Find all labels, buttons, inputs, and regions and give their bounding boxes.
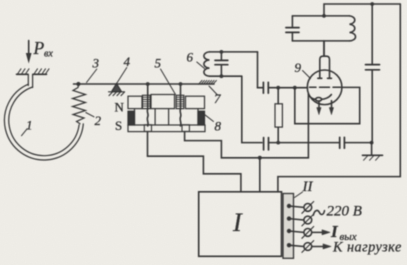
svg-text:II: II xyxy=(302,179,314,195)
svg-text:К нагрузке: К нагрузке xyxy=(332,240,402,256)
plunger left (element 5) xyxy=(146,84,149,126)
svg-text:5: 5 xyxy=(155,56,162,71)
LC tank: coil 6 xyxy=(204,52,258,76)
top-left yoke block xyxy=(128,96,142,108)
plunger right (element 5) xyxy=(179,84,182,126)
grid (dashed) xyxy=(310,86,341,88)
node: tank 6 bottom xyxy=(220,74,224,78)
pivot 4 (fulcrum) xyxy=(109,84,125,96)
svg-text:8: 8 xyxy=(215,119,222,134)
label 6 xyxy=(187,50,194,65)
svg-text:N: N xyxy=(115,100,125,115)
capacitor of tank 6 xyxy=(215,52,228,76)
lever 3 xyxy=(74,83,215,85)
label 4 xyxy=(124,54,131,69)
right magnet block (dark) xyxy=(198,111,205,125)
svg-text:вх: вх xyxy=(44,49,53,60)
node on cathode wire xyxy=(258,156,262,160)
label N xyxy=(115,100,125,115)
Bourdon tube 1 (C-shaped manometric spring) xyxy=(4,74,83,160)
node: grid to resistor xyxy=(276,86,280,90)
node: resistor to capacitor row xyxy=(276,141,280,145)
label 5 and pointer to plunger xyxy=(155,56,162,71)
grid wire xyxy=(268,87,307,89)
svg-text:4: 4 xyxy=(124,54,131,69)
svg-text:220 В: 220 В xyxy=(327,204,362,220)
wall support hatching (fixed end) xyxy=(17,69,50,75)
terminal 2 xyxy=(287,216,291,220)
grid leak resistor xyxy=(277,88,279,104)
top-right yoke block xyxy=(186,96,205,108)
svg-text:2: 2 xyxy=(95,113,102,128)
input pressure arrow Pвх xyxy=(26,41,31,63)
terminal 1 xyxy=(287,204,291,208)
tank coil (scalloped right edge) xyxy=(292,40,349,42)
bottom plate xyxy=(128,125,205,132)
coil 1 (hatched winding) xyxy=(143,95,151,108)
tank top wire xyxy=(292,15,349,17)
label S xyxy=(115,118,122,133)
spring 2 xyxy=(73,86,86,124)
wire: right coil to cathode rail xyxy=(185,96,309,158)
right feedback wire xyxy=(278,4,400,192)
blocking capacitor 2 xyxy=(339,137,341,148)
terminal 4 xyxy=(287,243,291,247)
label 3 xyxy=(92,56,100,71)
cathode xyxy=(308,94,331,99)
inner window edges xyxy=(154,109,156,125)
arrow Iвых xyxy=(312,231,323,233)
svg-text:S: S xyxy=(115,118,122,133)
label 9 xyxy=(295,60,302,75)
wire tank6 bottom to capacitor row xyxy=(242,76,262,142)
tank capacitor xyxy=(291,16,293,27)
anode tank circuit (top right) xyxy=(286,16,356,56)
label 1 xyxy=(26,118,33,133)
label Pвх xyxy=(33,38,54,60)
decoupling capacitor (right, horizontal plates) xyxy=(366,4,380,143)
label 7 xyxy=(214,91,221,106)
magnetic system 8 xyxy=(128,95,205,132)
terminal 3 xyxy=(287,229,291,233)
wire: node down to box I xyxy=(259,158,261,192)
label ~220 В xyxy=(313,210,324,215)
node: ground junction xyxy=(370,141,374,145)
coupling capacitor C (grid, series) xyxy=(258,52,269,93)
ground symbol xyxy=(363,143,383,161)
filament leads with arrows xyxy=(318,101,320,108)
node: spring to lever xyxy=(76,82,80,86)
terminal strip II xyxy=(283,194,294,259)
left magnet block (dark) xyxy=(128,111,135,125)
cathode frame wire xyxy=(295,87,360,123)
svg-text:I: I xyxy=(232,208,243,237)
node: tank to supply rail xyxy=(322,14,326,18)
svg-text:9: 9 xyxy=(295,60,302,75)
wire: left coil to box I (staircase) xyxy=(148,132,241,192)
damper 7: hatched segment at lever end xyxy=(199,80,217,84)
label 2 xyxy=(95,113,102,128)
arrow К нагрузке xyxy=(312,246,324,248)
blocking capacitor 1 xyxy=(263,138,265,150)
node: grid to frame xyxy=(293,86,297,90)
middle yoke bar xyxy=(151,95,175,109)
anode (inverted U with top lead) xyxy=(323,42,325,56)
node: tank 6 top xyxy=(220,50,224,54)
top supply rail xyxy=(324,4,400,16)
coil 2 (hatched winding) xyxy=(176,95,184,108)
svg-text:P: P xyxy=(33,38,45,58)
node: rail to decoupling capacitor xyxy=(370,2,374,6)
electron tube 9 xyxy=(307,42,342,115)
anode feed xyxy=(323,41,325,56)
svg-text:6: 6 xyxy=(187,50,194,65)
svg-text:3: 3 xyxy=(92,56,100,71)
svg-text:1: 1 xyxy=(26,118,33,133)
capacitor row wire xyxy=(269,142,340,144)
svg-text:7: 7 xyxy=(214,91,221,106)
label 8 xyxy=(215,119,222,134)
unit I (amplifier block) xyxy=(199,192,282,256)
